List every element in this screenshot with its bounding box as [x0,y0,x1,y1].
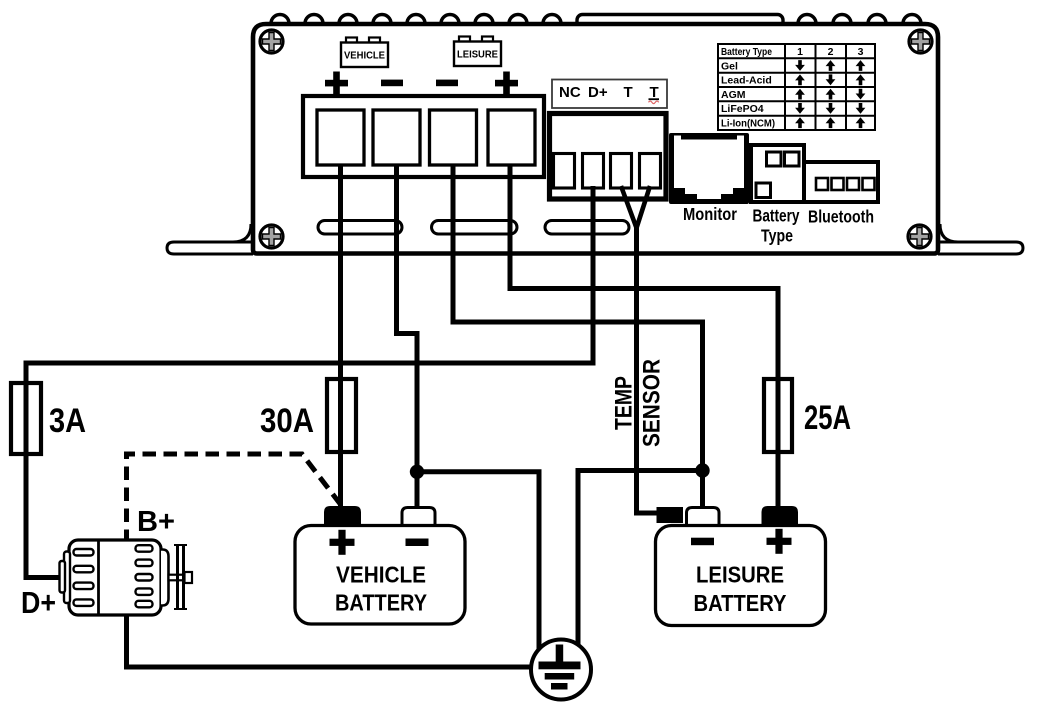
plus sign leisure + [495,72,518,95]
vent slot 3 [545,221,629,235]
pin 1 NC [554,154,575,189]
svg-text:BATTERY: BATTERY [335,590,427,616]
svg-text:D+: D+ [588,84,608,101]
main terminal block [303,96,544,177]
vehicle battery negative terminal [402,508,435,527]
left flange fillet [233,224,251,242]
svg-text:25A: 25A [804,399,851,437]
svg-text:AGM: AGM [721,89,746,101]
screw top-right [909,30,932,53]
svg-text:1: 1 [797,46,803,58]
battery type table [718,44,875,130]
fuse 30A [327,379,356,452]
leisure battery plus sign [767,529,792,554]
alternator pulley discs [178,545,184,609]
svg-text:Type: Type [761,226,793,246]
charger top raised handle bar [577,15,783,29]
charger unit body [253,24,938,254]
svg-text:VEHICLE: VEHICLE [336,562,426,588]
alternator right end bump [161,550,169,606]
Battery Type DIP switch box [751,145,804,202]
alternator left slots [74,549,94,606]
wire vehicle + from terminal 1 to vehicle battery plus [338,165,343,506]
fuse 25A [764,379,792,452]
wire alternator body to ground [127,612,546,667]
screw bottom-right [908,225,931,248]
terminal 4 (leisure +) [488,110,535,165]
junction dot leisure minus [695,463,709,477]
Monitor RJ45 socket [669,133,749,204]
minus sign leisure - [436,80,458,87]
alternator body [69,540,161,615]
leisure battery positive terminal [762,506,799,526]
svg-text:2: 2 [828,46,834,58]
svg-text:B+: B+ [137,506,175,538]
alternator left shaft caps [64,552,70,604]
alternator right slots [136,545,153,607]
dashed B+ wire from alternator to vehicle battery plus [127,454,342,543]
svg-text:LEISURE: LEISURE [457,50,498,61]
screw top-left [260,30,283,53]
alternator pulley axle nub [185,572,193,583]
LEISURE battery icon label [454,37,501,67]
svg-text:3A: 3A [49,402,86,440]
vehicle battery box [295,526,465,625]
plus sign vehicle + [325,72,348,95]
signal connector block [550,114,667,200]
pin 2 D+ [583,154,604,189]
terminal 1 (vehicle +) [317,110,364,165]
vehicle battery plus sign [330,530,355,555]
vent slot 2 [432,221,518,235]
terminal 2 (vehicle -) [373,110,420,165]
svg-text:VEHICLE: VEHICLE [344,51,385,62]
svg-text:Lead-Acid: Lead-Acid [721,75,772,87]
left mounting flange [167,242,253,254]
vehicle battery minus sign [406,539,429,547]
temp sensor wire V from pins 3 and 4 [621,186,650,228]
wire leisure - branch to ground [578,471,703,656]
wire vehicle - from terminal 2 with jog to vehicle battery minus [397,165,418,507]
table texts [721,46,864,130]
table switch arrows row Gel [795,60,865,128]
svg-text:Battery: Battery [753,206,800,226]
svg-text:TEMP: TEMP [611,376,638,430]
leisure battery box [656,526,826,626]
screw bottom-left [260,225,283,248]
svg-text:Monitor: Monitor [683,204,737,224]
charger top cooling bumps [271,15,921,33]
svg-text:Bluetooth: Bluetooth [808,207,874,227]
terminal 3 (leisure -) [430,110,477,165]
leisure battery negative terminal [687,508,720,527]
leisure battery minus sign [691,538,714,546]
minus sign vehicle - [381,80,403,87]
svg-text:Li-Ion(NCM): Li-Ion(NCM) [721,118,775,130]
svg-text:BATTERY: BATTERY [694,590,787,616]
junction dot vehicle minus [410,465,424,479]
wire D+ from pin 2 to 3A fuse and alternator [26,186,593,578]
svg-text:30A: 30A [260,402,314,440]
wire vehicle - branch to ground [417,472,539,655]
ground symbol bars [539,645,581,690]
svg-text:D+: D+ [21,585,56,620]
wire leisure - from terminal 3 to leisure battery minus [453,165,703,507]
svg-text:Battery Type: Battery Type [721,46,772,58]
svg-text:SENSOR: SENSOR [639,359,666,447]
svg-text:Gel: Gel [721,60,738,72]
wire leisure + from terminal 4 to 25A fuse and battery plus [510,165,778,506]
svg-text:LiFePO4: LiFePO4 [721,103,764,115]
VEHICLE battery icon label [341,38,388,68]
svg-text:T: T [624,84,633,101]
vent slot 1 [318,221,402,235]
svg-text:3: 3 [858,46,864,58]
Bluetooth module box [804,162,878,202]
alternator pulley axle [169,575,185,581]
leisure battery temp sensor block [657,507,684,523]
alternator divider [97,540,100,615]
temp sensor wire down to leisure battery sensor block [637,226,661,513]
right flange fillet [940,224,958,242]
pin 4 T [640,154,661,189]
svg-text:LEISURE: LEISURE [696,562,784,588]
fuse 3A [11,383,41,454]
right mounting flange [938,242,1023,254]
vehicle battery positive terminal [324,506,361,526]
ground symbol circle [531,640,591,700]
pin 3 T [611,154,632,189]
svg-text:NC: NC [559,84,581,101]
NC D+ T T label box [552,80,667,109]
